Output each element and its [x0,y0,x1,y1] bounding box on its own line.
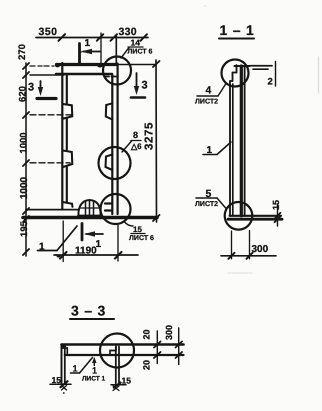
svg-text:270: 270 [17,44,28,60]
1-1 base plate [228,216,282,219]
label 14 / ЛИСТ 6 [128,38,153,56]
tab on right member mid [106,155,113,171]
1-1 member verticals [230,66,245,216]
svg-text:1: 1 [73,364,78,374]
left dimension chain [23,63,71,256]
svg-text:300: 300 [252,244,269,255]
callout circle 1-1 top [222,60,249,87]
svg-text:15: 15 [271,200,281,210]
svg-text:300: 300 [164,325,174,340]
dim 1190 bottom [54,221,138,262]
svg-text:2: 2 [268,77,273,88]
bottom joint dashes [105,204,112,211]
3-3 dim 15 left [50,381,71,394]
svg-text:ЛИСТ 1: ЛИСТ 1 [82,376,106,383]
label 4 / ЛИСТ2 [195,85,218,106]
main view right member [112,64,117,215]
callout circle 1-1 bottom [225,202,253,230]
svg-text:350: 350 [39,26,58,38]
callout circle mid (weld detail) [99,147,131,179]
svg-text:620: 620 [18,86,29,102]
leader label 1 bottom left [38,226,78,251]
dim 2 detail [250,62,276,87]
svg-text:3275: 3275 [144,122,156,150]
svg-text:20: 20 [142,329,152,339]
tab on left member upper [63,104,72,119]
svg-text:195: 195 [19,220,30,237]
main view left member [62,63,67,210]
3-3 right angle leg [110,346,119,385]
svg-text:1000: 1000 [19,176,30,199]
svg-text:15: 15 [122,376,132,386]
main view top plate [30,65,156,77]
label 15 / ЛИСТ 6 [129,225,154,242]
svg-text:ЛИСТ2: ЛИСТ2 [195,201,218,208]
svg-text:1: 1 [85,38,91,49]
section marker 1 top [80,44,101,64]
leader label 1 (1-1) [203,142,231,155]
dim line top 350/330 [36,33,148,63]
svg-text:1 – 1: 1 – 1 [220,22,255,38]
label 5 / ЛИСТ2 [195,188,218,208]
svg-text:ЛИСТ 6: ЛИСТ 6 [128,49,153,56]
3-3 plate [62,345,184,356]
3-3 right dims [154,328,182,365]
svg-text:1: 1 [39,242,45,253]
title 3-3 [71,303,106,319]
section marker 3 left [37,81,56,99]
tab on left member lower [63,151,72,168]
svg-text:1190: 1190 [75,246,97,257]
svg-text:20: 20 [142,360,152,370]
right dim line 3275 [153,60,160,222]
svg-text:14: 14 [131,38,141,48]
svg-text:3: 3 [142,80,148,92]
leader to weld label [122,141,132,153]
svg-text:15: 15 [133,225,142,234]
dim 300 bottom of 1-1 [221,231,276,259]
weld label 8 / triangle 6 [130,130,142,151]
svg-text:3: 3 [28,82,34,94]
title 1-1 [220,22,255,38]
callout circle 3-3 [100,334,134,368]
main view bottom plate [23,210,157,218]
1-1 member top cap [230,65,250,81]
ink blob at left tick [57,255,61,258]
svg-text:1000: 1000 [19,132,30,153]
left member bottom wedge [63,202,73,207]
extension through top circle [115,36,117,64]
svg-text:ЛИСТ 6: ЛИСТ 6 [129,235,154,242]
dim 15 plate thickness [275,204,281,226]
callout circle bottom (detail 15) [101,194,131,224]
svg-text:4: 4 [206,85,212,97]
svg-text:3 – 3: 3 – 3 [71,303,106,319]
scan specks [204,5,318,273]
3-3 leader 1 left [71,358,93,374]
svg-text:△6: △6 [130,142,142,151]
section marker 1 bottom [82,224,103,241]
callout circle top (detail 14) [103,57,131,85]
section marker 3 right [131,73,145,98]
svg-text:1: 1 [207,145,213,156]
3-3 left angle leg [62,345,68,385]
svg-text:ЛИСТ2: ЛИСТ2 [195,99,218,106]
tab on right member upper [106,103,113,119]
ink pooling blobs [23,51,103,348]
3-3 dim 15 right [111,383,126,391]
leader to label 14 [121,48,129,59]
3-3 leader 1 / ЛИСТ 1 [92,357,97,366]
leader 4 [218,84,226,97]
svg-text:8: 8 [133,130,138,140]
svg-text:1: 1 [92,366,97,376]
leader to label 15 [124,222,133,227]
svg-text:330: 330 [119,26,137,38]
svg-text:15: 15 [52,375,62,385]
base dome detail [78,200,101,216]
leader 5 [217,198,227,209]
